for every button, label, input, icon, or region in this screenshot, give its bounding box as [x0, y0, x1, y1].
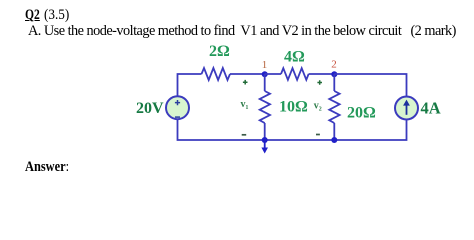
svg-text:2Ω: 2Ω — [209, 43, 230, 60]
bottom node dot below 10-ohm — [262, 137, 268, 143]
svg-text:4A: 4A — [421, 99, 441, 118]
wire from 20-ohm down to bottom node — [333, 123, 335, 140]
svg-text:v₂: v₂ — [314, 100, 322, 111]
wire from current source down to bottom-right corner — [334, 120, 406, 141]
current source I1 circle — [395, 97, 418, 120]
wire from 4-ohm to node 2 — [309, 73, 335, 75]
node 2 dot — [331, 71, 337, 77]
node 1 label — [262, 59, 268, 71]
answer label — [25, 159, 77, 176]
question header mark (3.5) — [44, 7, 72, 24]
label 20V — [136, 100, 164, 117]
bottom node dot below 20-ohm — [331, 137, 337, 143]
wire top-left segment from voltage source to 2-ohm resistor — [178, 74, 202, 96]
svg-text:2: 2 — [331, 59, 337, 71]
current source arrow — [403, 100, 410, 115]
node 2 label — [331, 59, 337, 71]
node 1 dot — [262, 71, 268, 77]
wire from node 1 to 4-ohm resistor — [265, 73, 281, 75]
v1 polarity minus — [242, 134, 247, 136]
wire from 2-ohm to node 1 — [230, 73, 265, 75]
v2 label — [314, 100, 322, 111]
label 2-ohm — [209, 43, 230, 60]
voltage source V1 circle — [166, 96, 189, 119]
wire from 10-ohm down to bottom node — [264, 123, 266, 140]
label 4A — [421, 99, 441, 118]
svg-text:10Ω: 10Ω — [279, 99, 308, 116]
question header Q2 (3.5) — [25, 7, 44, 24]
svg-text:1: 1 — [262, 59, 268, 71]
wire from node 2 to top-right corner and down to current source — [334, 74, 406, 97]
label 10-ohm — [279, 99, 308, 116]
svg-text:4Ω: 4Ω — [284, 49, 305, 66]
label 4-ohm — [284, 49, 305, 66]
v2 polarity plus — [317, 80, 322, 85]
resistor R4 20-ohm vertical zigzag — [329, 91, 339, 123]
question line A — [28, 23, 456, 40]
label 20-ohm — [347, 105, 376, 122]
voltage source minus sign — [175, 116, 180, 118]
svg-text:20V: 20V — [136, 100, 164, 117]
ground reference arrow — [261, 140, 268, 154]
wire from node 2 down to 20-ohm resistor — [333, 74, 335, 91]
resistor R2 4-ohm zigzag — [281, 68, 309, 80]
bottom rail from node below 20-ohm to node below 10-ohm — [265, 139, 335, 141]
bottom rail from node below 10-ohm to bottom-left corner — [178, 120, 265, 141]
v1 polarity plus — [243, 80, 248, 85]
v2 polarity minus — [316, 134, 320, 136]
svg-text:20Ω: 20Ω — [347, 105, 376, 122]
voltage source plus sign — [175, 100, 180, 105]
v1 label — [241, 99, 249, 110]
resistor R1 2-ohm zigzag — [202, 68, 231, 80]
resistor R3 10-ohm vertical zigzag — [260, 91, 270, 123]
wire from node 1 down to 10-ohm resistor — [264, 74, 266, 91]
svg-text:v₁: v₁ — [241, 99, 249, 110]
